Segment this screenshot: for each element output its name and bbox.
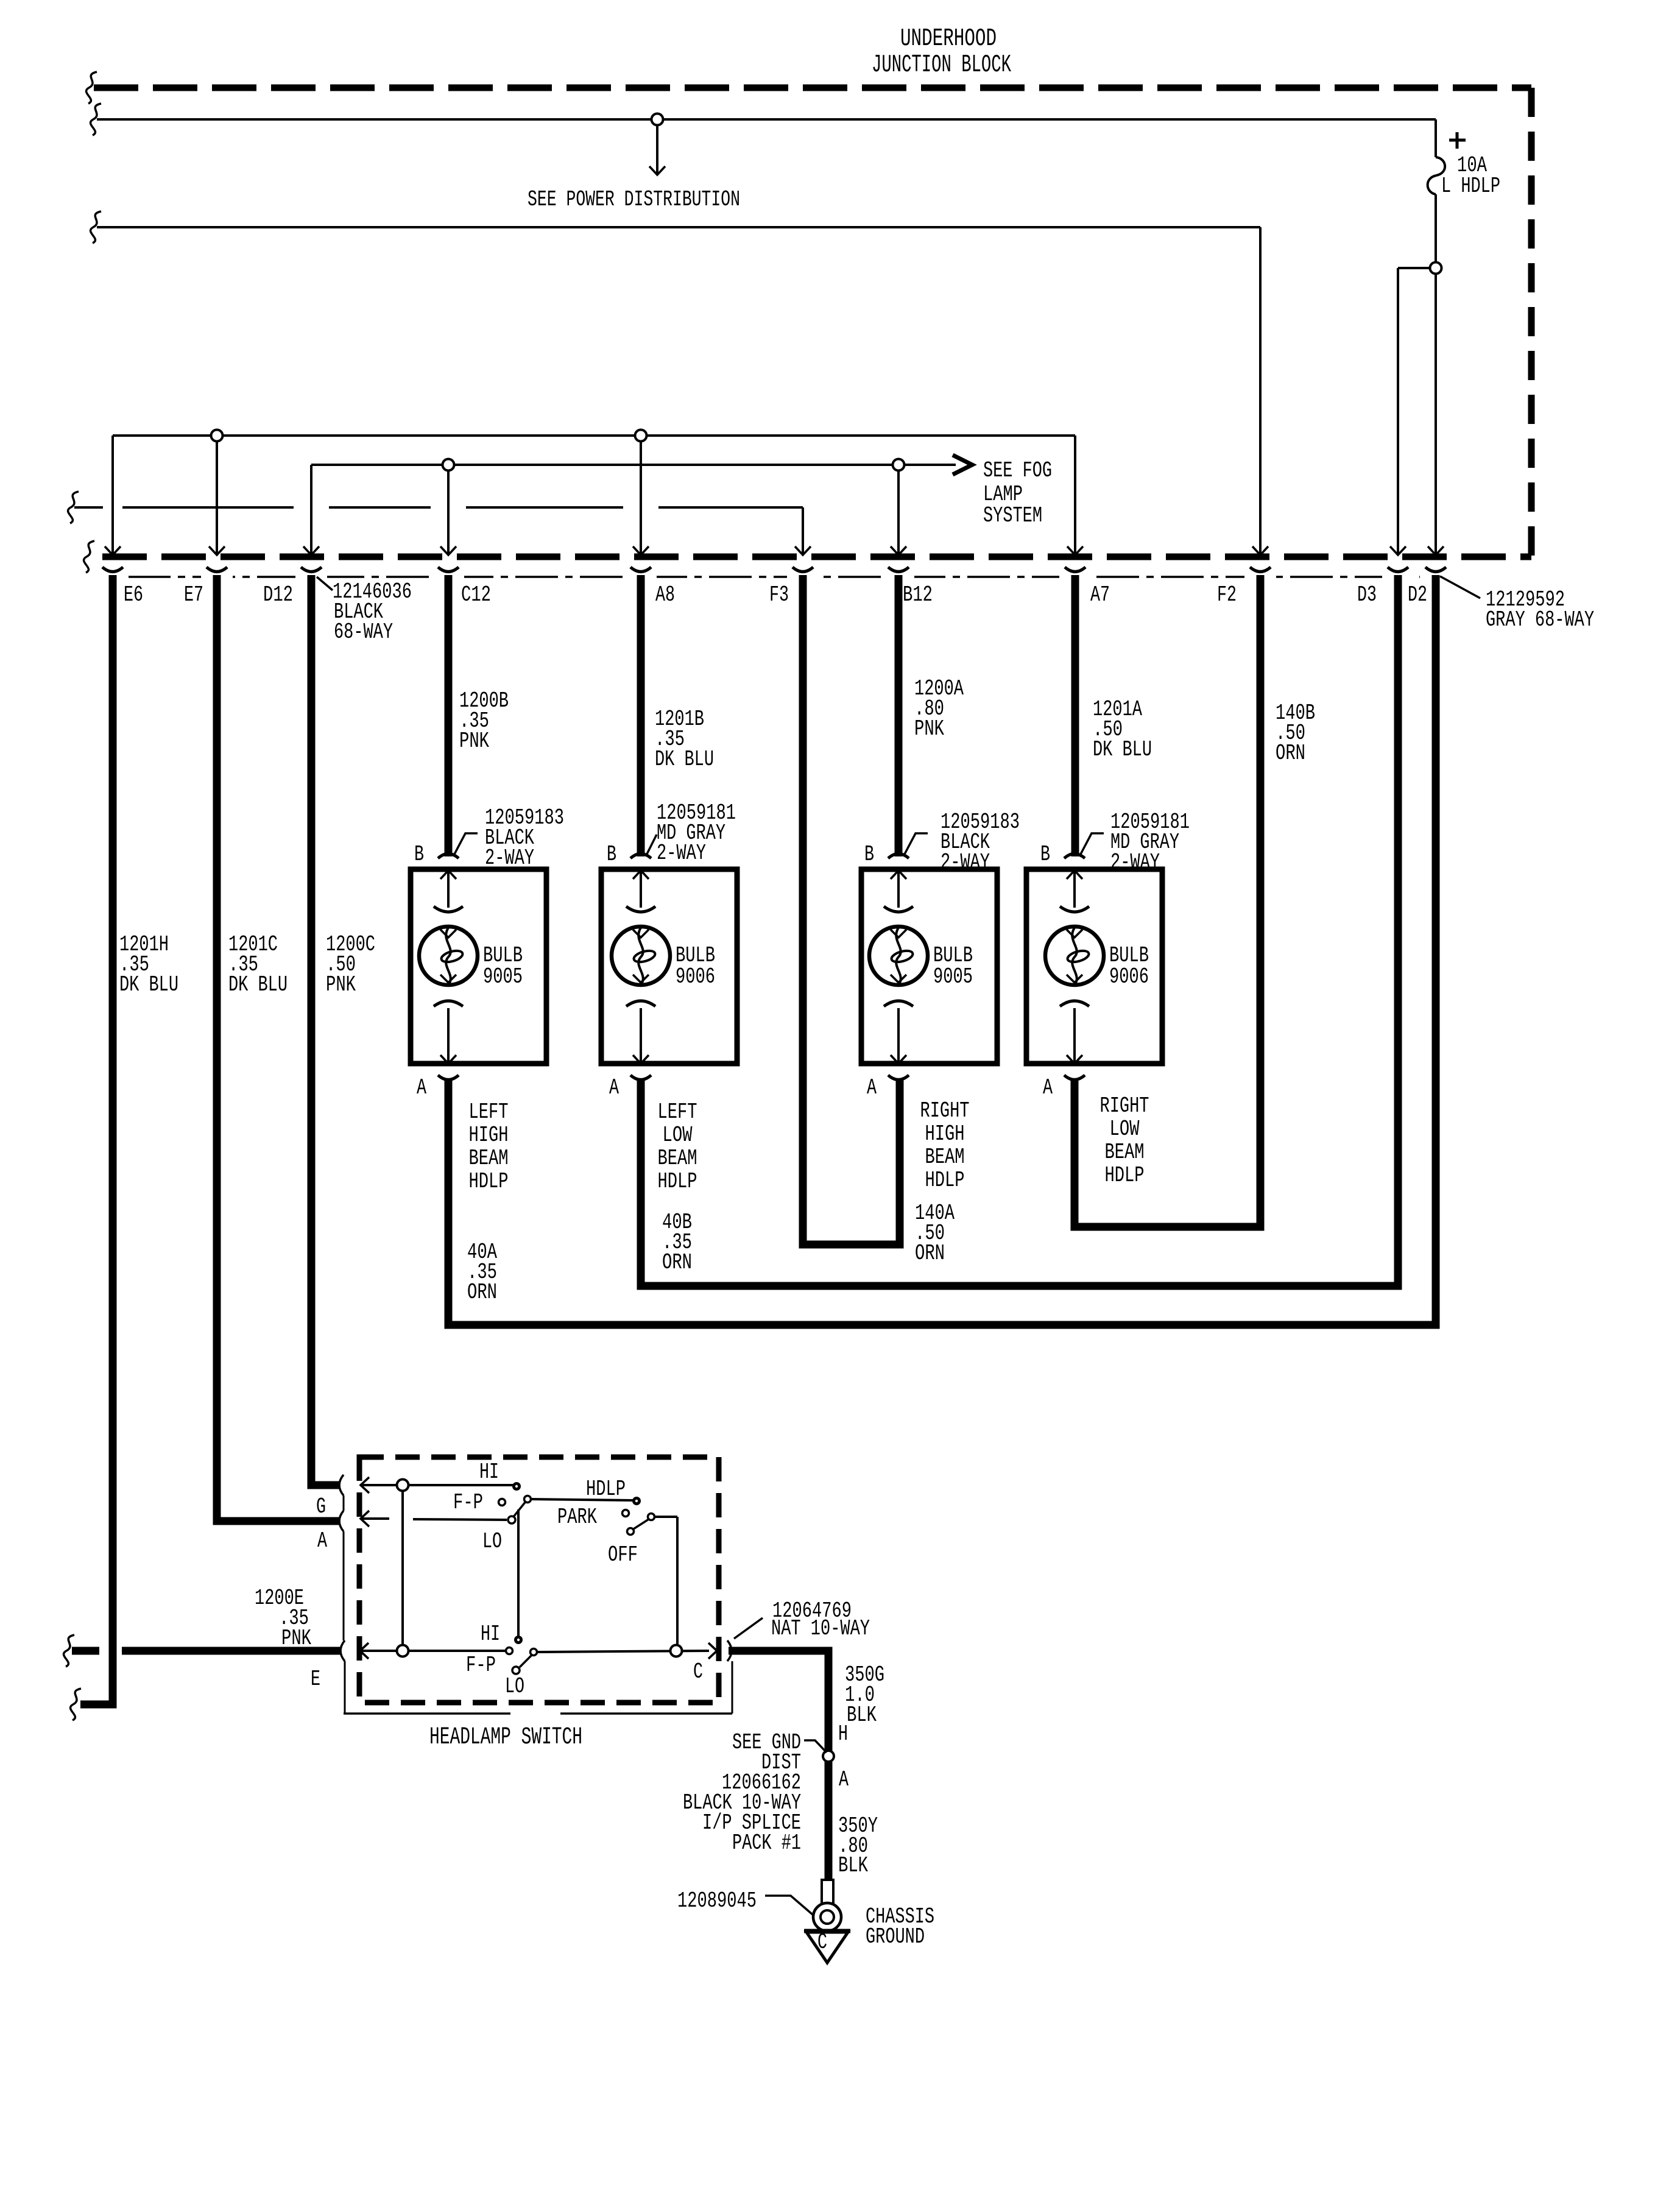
- svg-text:C: C: [817, 1930, 827, 1955]
- svg-text:L HDLP: L HDLP: [1441, 174, 1500, 199]
- svg-text:E7: E7: [184, 582, 203, 607]
- svg-text:PACK #1: PACK #1: [732, 1830, 801, 1855]
- svg-text:JUNCTION BLOCK: JUNCTION BLOCK: [872, 51, 1011, 79]
- svg-text:F2: F2: [1217, 582, 1237, 607]
- svg-text:B: B: [414, 842, 424, 867]
- svg-text:LEFT: LEFT: [469, 1100, 509, 1124]
- svg-text:B12: B12: [903, 582, 933, 607]
- svg-text:A: A: [867, 1075, 877, 1100]
- svg-text:HIGH: HIGH: [925, 1121, 965, 1146]
- svg-text:2-WAY: 2-WAY: [657, 841, 706, 866]
- svg-text:A: A: [1043, 1075, 1053, 1100]
- svg-text:2-WAY: 2-WAY: [941, 850, 990, 875]
- svg-text:G: G: [316, 1494, 326, 1519]
- svg-text:2-WAY: 2-WAY: [485, 846, 534, 870]
- svg-text:ORN: ORN: [1276, 741, 1305, 766]
- svg-text:12089045: 12089045: [677, 1888, 757, 1913]
- svg-text:LEFT: LEFT: [658, 1100, 697, 1124]
- svg-text:DK BLU: DK BLU: [655, 747, 714, 772]
- svg-text:SYSTEM: SYSTEM: [983, 503, 1042, 528]
- svg-text:GRAY 68-WAY: GRAY 68-WAY: [1486, 607, 1594, 632]
- svg-text:HEADLAMP SWITCH: HEADLAMP SWITCH: [429, 1724, 582, 1751]
- svg-text:2-WAY: 2-WAY: [1110, 850, 1160, 875]
- svg-text:LO: LO: [505, 1674, 524, 1699]
- svg-text:UNDERHOOD: UNDERHOOD: [900, 25, 997, 53]
- svg-text:9005: 9005: [933, 964, 973, 989]
- svg-text:9006: 9006: [676, 964, 715, 989]
- svg-text:ORN: ORN: [915, 1241, 945, 1266]
- svg-text:F-P: F-P: [466, 1653, 496, 1678]
- svg-text:A: A: [839, 1767, 849, 1792]
- svg-text:HDLP: HDLP: [469, 1169, 509, 1194]
- svg-text:LOW: LOW: [1110, 1117, 1140, 1142]
- svg-text:C: C: [693, 1659, 703, 1684]
- svg-text:F-P: F-P: [453, 1490, 483, 1515]
- svg-text:A: A: [609, 1075, 619, 1100]
- svg-text:HDLP: HDLP: [925, 1168, 965, 1193]
- svg-text:BEAM: BEAM: [1105, 1140, 1145, 1165]
- svg-text:A8: A8: [655, 582, 675, 607]
- svg-text:ORN: ORN: [662, 1250, 692, 1275]
- svg-text:D2: D2: [1408, 582, 1427, 607]
- svg-text:HDLP: HDLP: [586, 1477, 626, 1502]
- svg-text:HIGH: HIGH: [469, 1123, 509, 1148]
- svg-text:HDLP: HDLP: [658, 1169, 697, 1194]
- svg-text:9006: 9006: [1109, 964, 1149, 989]
- svg-text:E: E: [311, 1667, 320, 1692]
- svg-text:BLK: BLK: [838, 1853, 868, 1878]
- svg-text:PARK: PARK: [557, 1505, 597, 1530]
- svg-text:PNK: PNK: [914, 716, 944, 741]
- svg-text:D12: D12: [263, 582, 293, 607]
- svg-text:C12: C12: [461, 582, 491, 607]
- svg-text:BEAM: BEAM: [658, 1146, 697, 1171]
- svg-text:BEAM: BEAM: [469, 1146, 509, 1171]
- svg-text:BLK: BLK: [847, 1703, 877, 1728]
- svg-text:LO: LO: [482, 1529, 502, 1554]
- svg-text:DK BLU: DK BLU: [228, 972, 288, 997]
- svg-text:RIGHT: RIGHT: [920, 1098, 970, 1123]
- svg-text:F3: F3: [769, 582, 789, 607]
- svg-text:HI: HI: [479, 1460, 499, 1485]
- svg-text:LOW: LOW: [663, 1123, 693, 1148]
- svg-text:SEE FOG: SEE FOG: [983, 458, 1052, 483]
- svg-text:SEE POWER DISTRIBUTION: SEE POWER DISTRIBUTION: [528, 187, 740, 212]
- svg-text:PNK: PNK: [459, 729, 489, 754]
- svg-text:9005: 9005: [483, 964, 523, 989]
- svg-text:A: A: [317, 1528, 327, 1553]
- svg-text:A7: A7: [1090, 582, 1110, 607]
- svg-text:DK BLU: DK BLU: [119, 972, 178, 997]
- svg-text:HI: HI: [481, 1622, 500, 1647]
- svg-text:E6: E6: [124, 582, 143, 607]
- svg-text:GROUND: GROUND: [866, 1924, 925, 1949]
- svg-text:H: H: [838, 1721, 848, 1746]
- svg-text:RIGHT: RIGHT: [1100, 1093, 1149, 1118]
- svg-text:DK BLU: DK BLU: [1093, 737, 1152, 762]
- svg-text:BEAM: BEAM: [925, 1145, 965, 1170]
- svg-text:A: A: [417, 1075, 426, 1100]
- svg-text:PNK: PNK: [326, 972, 356, 997]
- svg-text:B: B: [864, 842, 874, 867]
- svg-text:PNK: PNK: [281, 1626, 311, 1651]
- svg-text:ORN: ORN: [467, 1280, 497, 1305]
- svg-text:NAT 10-WAY: NAT 10-WAY: [771, 1616, 870, 1641]
- svg-text:B: B: [607, 842, 616, 867]
- svg-text:B: B: [1040, 842, 1050, 867]
- svg-text:68-WAY: 68-WAY: [334, 620, 393, 644]
- svg-text:D3: D3: [1357, 582, 1377, 607]
- svg-text:HDLP: HDLP: [1105, 1163, 1145, 1188]
- svg-text:OFF: OFF: [608, 1542, 638, 1567]
